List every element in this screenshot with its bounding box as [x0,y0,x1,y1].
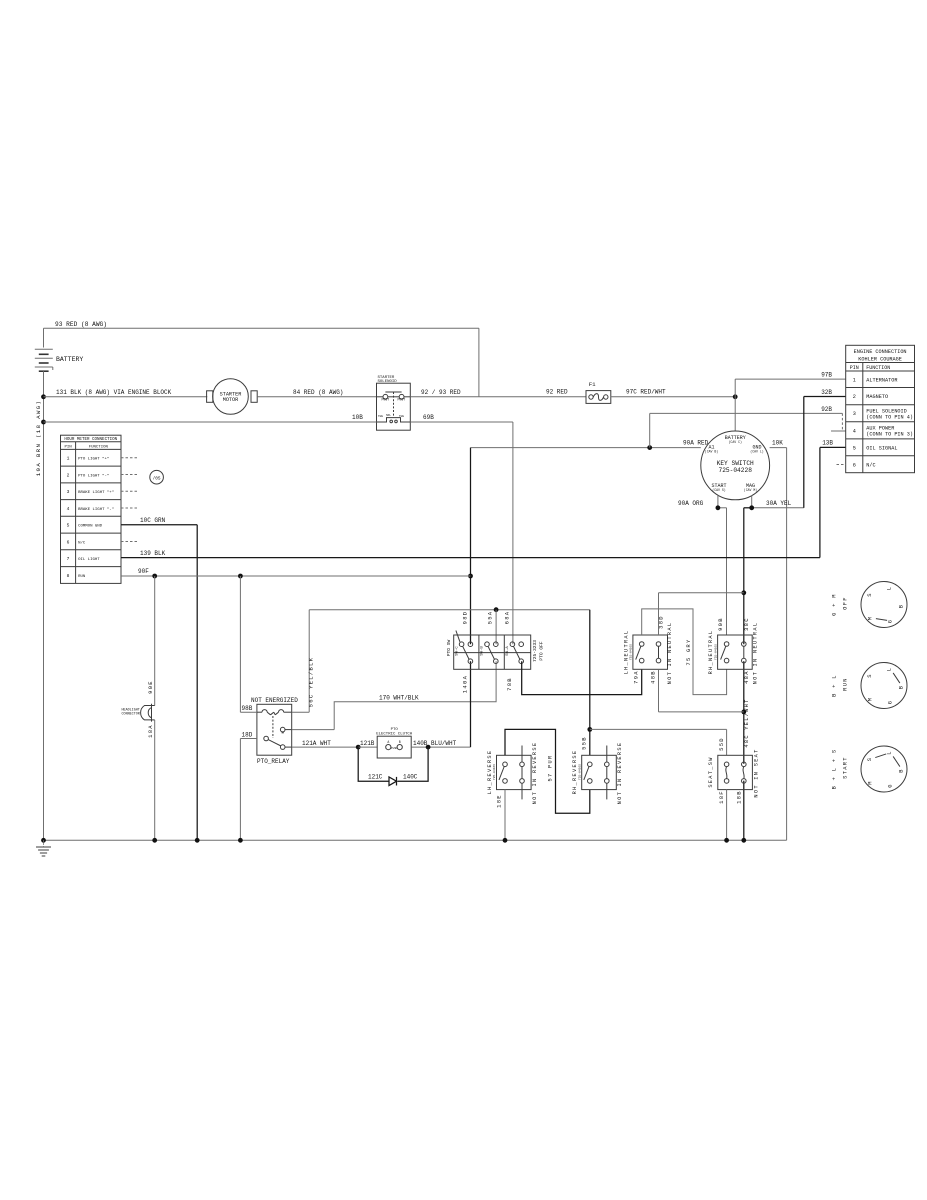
svg-text:140A: 140A [462,675,469,693]
svg-text:NOT IN NEUTRAL: NOT IN NEUTRAL [667,622,673,685]
svg-text:NOT IN SEAT: NOT IN SEAT [753,748,759,797]
svg-text:140C: 140C [403,774,418,781]
svg-text:(CAV S): (CAV S) [712,488,725,492]
svg-text:S: S [867,592,873,597]
svg-text:OIL LIGHT: OIL LIGHT [78,558,100,562]
svg-text:6: 6 [67,539,70,545]
svg-text:69B: 69B [423,414,434,421]
diode across clutch [358,747,428,785]
svg-text:38D: 38D [658,615,665,629]
svg-text:M: M [868,780,874,785]
wire 75 GRY [642,609,727,695]
hour meter connection table [61,435,122,583]
svg-text:LH_NEUTRAL: LH_NEUTRAL [623,630,629,675]
svg-text:B: B [899,768,905,773]
label 38C [743,617,750,631]
svg-text:4: 4 [853,428,856,434]
label 98D [462,611,469,625]
svg-text:30A YEL: 30A YEL [766,500,792,507]
svg-text:LH_REVERSE: LH_REVERSE [487,750,493,795]
hour meter n/c stub 2 [121,490,139,492]
svg-text:POST: POST [398,398,406,402]
svg-text:18D: 18D [242,731,253,738]
svg-text:48B: 48B [649,670,656,684]
wire 90 feed vertical [468,448,473,645]
svg-text:725-04165: 725-04165 [578,764,581,780]
label 10A BRN (18 AWG) [35,400,42,476]
relay PTO_RELAY [251,697,298,765]
svg-text:THE: THE [399,415,404,418]
svg-text:57 PUR: 57 PUR [547,755,553,782]
svg-text:1: 1 [67,456,70,462]
svg-text:97B: 97B [821,372,832,379]
svg-text:90A RED: 90A RED [683,440,709,447]
svg-text:2: 2 [853,394,856,400]
svg-text:ALTERNATOR: ALTERNATOR [866,377,897,383]
svg-text:NOT ENERGIZED: NOT ENERGIZED [251,697,298,704]
svg-text:PIN: PIN [64,446,72,450]
node solenoid ground tap [41,420,46,425]
svg-text:BRAKE LIGHT "-": BRAKE LIGHT "-" [78,507,114,512]
svg-text:THE: THE [378,415,383,418]
svg-text:(CONN TO PIN 3): (CONN TO PIN 3) [866,432,913,438]
wire 170 WHT/BLK [292,661,496,729]
svg-text:10B: 10B [352,414,363,421]
svg-text:SOLENOID: SOLENOID [378,380,398,384]
svg-text:OIL SIGNAL: OIL SIGNAL [866,445,897,451]
svg-text:1: 1 [853,377,856,383]
svg-text:G: G [888,700,894,705]
svg-text:B: B [899,604,905,609]
hour meter n/c stub 4 [121,541,139,543]
svg-text:/05: /05 [153,476,161,481]
fuse F1 [586,381,611,403]
wire 121A WHT [292,740,359,747]
wire 56C YEL/BLK [292,610,315,713]
svg-text:N/C: N/C [78,540,86,545]
svg-text:725-04165: 725-04165 [493,764,496,780]
headlight connector [122,576,155,840]
svg-text:121B: 121B [360,740,375,747]
svg-text:RUN: RUN [843,677,849,691]
wire 50A ORG start [678,495,727,635]
svg-text:ELECTRIC CLUTCH: ELECTRIC CLUTCH [376,733,413,737]
svg-text:NOT IN NEUTRAL: NOT IN NEUTRAL [752,622,758,685]
svg-text:18E: 18E [496,794,503,808]
label 90B [717,617,724,631]
label 18B [735,790,742,804]
svg-text:(CAV M): (CAV M) [744,488,757,492]
svg-text:RUN: RUN [78,575,86,579]
svg-text:10A BRN (18 AWG): 10A BRN (18 AWG) [35,400,42,476]
svg-text:CONNECTOR: CONNECTOR [122,712,140,716]
svg-text:G + M: G + M [832,593,838,616]
svg-text:90E: 90E [147,680,154,694]
svg-text:M: M [868,697,874,702]
svg-text:79A: 79A [633,670,640,684]
wire 55 bus [309,607,590,612]
svg-text:84 RED (8 AWG): 84 RED (8 AWG) [293,389,343,396]
wire 32B to magneto pin 2 [804,389,846,508]
svg-text:140B BLU/WHT: 140B BLU/WHT [413,740,457,747]
svg-text:SEAT_SW: SEAT_SW [708,756,714,787]
svg-text:18A: 18A [147,724,154,738]
wire 93 RED (8 AWG) battery positive [44,321,479,397]
switch LH_NEUTRAL [623,622,673,685]
ground bus wire [41,838,787,843]
svg-text:97C RED/WHT: 97C RED/WHT [626,389,666,396]
svg-text:MOTOR: MOTOR [223,397,239,403]
svg-text:8: 8 [67,573,70,579]
svg-text:COMMON GND: COMMON GND [78,525,103,529]
svg-text:170 WHT/BLK: 170 WHT/BLK [379,695,419,702]
svg-text:48C YEL/WHT: 48C YEL/WHT [744,698,750,747]
svg-text:L: L [887,750,893,755]
starter solenoid [377,376,411,430]
svg-text:S: S [867,757,873,762]
wire 55D to seat switch [590,729,727,755]
svg-text:55B: 55B [580,736,587,750]
key position OFF [832,582,908,628]
starter motor [207,379,258,415]
svg-text:121C: 121C [368,774,383,781]
svg-text:HOUR METER CONNECTION: HOUR METER CONNECTION [64,438,117,442]
wire 98B relay coil feed [240,576,257,712]
key position RUN [832,663,908,709]
hour meter n/c stub 1 [121,474,139,476]
node mag junction [749,505,754,510]
label 48A [743,670,750,684]
PTO electric clutch [376,728,413,758]
wire 48B [649,669,744,712]
svg-text:725-04228: 725-04228 [718,467,752,474]
svg-text:PIN: PIN [850,365,859,371]
svg-text:NOT IN REVERSE: NOT IN REVERSE [617,742,623,805]
svg-text:121A WHT: 121A WHT [302,740,331,747]
svg-text:PZB: PZB [391,747,397,750]
wire 30A YEL mag [744,496,804,508]
node 48A-48B junction [741,710,746,715]
svg-text:B: B [399,740,401,744]
svg-text:SW-C: SW-C [455,646,459,656]
svg-text:725-04165: 725-04165 [714,644,717,660]
svg-text:92B: 92B [821,406,832,413]
svg-text:98B: 98B [242,705,253,712]
svg-text:BRAKE LIGHT "+": BRAKE LIGHT "+" [78,490,114,495]
wire 92B to fuel solenoid pin 3 [650,406,846,448]
svg-text:S: S [867,673,873,678]
svg-text:90B: 90B [717,617,724,631]
svg-text:SW-A: SW-A [506,646,510,656]
node 140B junction [426,745,431,750]
svg-text:BATTERY: BATTERY [56,356,83,363]
svg-text:(CAV C): (CAV C) [729,440,742,444]
svg-text:10K: 10K [772,440,783,447]
svg-text:(CONN TO PIN 4): (CONN TO PIN 4) [866,414,913,420]
svg-text:(CAV L): (CAV L) [750,450,763,454]
svg-text:M: M [868,616,874,621]
svg-text:OFF: OFF [843,596,849,610]
svg-text:PTO LIGHT "+": PTO LIGHT "+" [78,457,109,462]
wire 90A RED [471,440,709,448]
wire 140B BLU/WHT [411,740,470,747]
PTO switch 725-3233 [446,631,544,670]
wire 10B [44,414,377,422]
wire 13B oil signal [820,440,846,558]
wire 18D relay ground [240,731,257,840]
wire 121B [358,740,377,747]
svg-text:90A ORG: 90A ORG [678,500,704,507]
svg-text:FUNCTION: FUNCTION [866,365,890,371]
label 78B [506,677,513,691]
svg-text:START: START [843,756,849,779]
key switch 725-04228 [701,431,770,500]
svg-text:RH_REVERSE: RH_REVERSE [572,750,578,795]
svg-text:93 RED (8 AWG): 93 RED (8 AWG) [55,321,107,328]
svg-text:KEY SWITCH: KEY SWITCH [717,460,754,467]
svg-text:L: L [887,667,893,672]
wire 38D [658,593,744,635]
wire 92 / 93 RED [410,389,479,397]
hour meter n/c stub 3 [121,507,139,509]
wire 10K ground from key switch [770,440,787,841]
wire 84 RED (8 AWG) [257,389,376,397]
svg-text:SOL: SOL [386,414,391,417]
svg-text:PTO SW: PTO SW [446,639,452,656]
wire 10C GRN [121,517,197,841]
svg-text:FUNCTION: FUNCTION [89,446,109,450]
switch RH_NEUTRAL [708,622,758,685]
svg-text:5: 5 [67,523,70,529]
svg-text:N/C: N/C [866,462,875,468]
svg-text:7: 7 [67,556,70,562]
svg-text:55D: 55D [718,737,725,751]
switch LH_REVERSE [487,742,538,805]
svg-text:98D: 98D [462,611,469,625]
key position START [832,746,908,792]
switch SEAT_SW [708,748,760,797]
svg-text:92 RED: 92 RED [546,389,568,396]
pin 6 n/c stub [837,464,846,466]
svg-text:B: B [899,685,905,690]
wire 131 BLK via engine block [44,389,208,397]
wire 69B to PTO switch [410,414,513,644]
wire 57 PUR [505,729,590,813]
label 48C YEL/WHT [744,698,750,747]
wire 90F run feed [121,568,471,578]
svg-text:725-3233: 725-3233 [532,640,538,662]
svg-text:A: A [387,740,389,744]
engine connection table (Kohler Courage) [846,345,915,472]
svg-text:92 / 93 RED: 92 / 93 RED [421,389,461,396]
svg-text:ENGINE CONNECTION: ENGINE CONNECTION [854,349,907,355]
svg-text:(CAV B): (CAV B) [705,450,718,454]
wire 139 BLK oil light [121,550,820,558]
svg-text:3: 3 [853,411,856,417]
svg-text:90F: 90F [138,568,149,575]
svg-text:PTO LIGHT "-": PTO LIGHT "-" [78,473,109,478]
svg-text:78B: 78B [506,677,513,691]
svg-text:139 BLK: 139 BLK [140,550,166,557]
wire 78B [522,661,642,694]
svg-text:18F: 18F [718,790,725,804]
svg-text:G: G [888,619,894,624]
svg-text:KOHLER COURAGE: KOHLER COURAGE [858,357,902,363]
wire 118A [462,661,471,747]
svg-text:68A: 68A [504,611,511,625]
svg-text:POST: POST [382,398,390,402]
wire 55A drop [487,610,497,645]
svg-text:PTO_RELAY: PTO_RELAY [257,758,290,765]
svg-text:F1: F1 [589,381,596,388]
svg-text:725-04165: 725-04165 [630,644,633,660]
svg-text:10C GRN: 10C GRN [140,517,166,524]
node 97C junction [733,394,738,399]
svg-text:13B: 13B [822,440,833,447]
svg-text:PTO OFF: PTO OFF [539,641,545,661]
svg-text:55A: 55A [487,611,494,625]
svg-text:75 GRY: 75 GRY [686,639,692,666]
node battery negative junction [41,394,46,399]
svg-text:56C YEL/BLK: 56C YEL/BLK [308,657,315,708]
svg-text:38C: 38C [743,617,750,631]
wire 97B to alternator pin 1 [735,372,846,431]
wire 55B [580,610,592,756]
svg-text:NOT IN REVERSE: NOT IN REVERSE [532,742,538,805]
svg-text:3: 3 [67,489,70,495]
wire 38C kill vertical [743,508,745,841]
svg-text:RH_NEUTRAL: RH_NEUTRAL [708,630,714,675]
svg-text:B + L + S: B + L + S [832,749,838,790]
wire 79A [633,670,640,684]
svg-text:L: L [887,586,893,591]
battery [35,328,84,840]
hour meter n/c stub 0 [121,457,139,459]
node 92B branch junction [647,445,652,450]
svg-text:6: 6 [853,462,856,468]
svg-text:MAGNETO: MAGNETO [866,394,888,400]
node start junction [716,505,721,510]
ground [36,840,51,856]
svg-text:G: G [888,783,894,788]
svg-text:32B: 32B [821,389,832,396]
node 121B junction [356,745,361,750]
svg-text:SW-B: SW-B [481,646,485,656]
svg-text:48A: 48A [743,670,750,684]
label 68A [504,611,511,625]
node 38C-38D junction [741,590,746,595]
wire 97C RED/WHT [611,389,735,397]
switch RH_REVERSE [572,742,623,805]
svg-text:18B: 18B [735,790,742,804]
wire 18F [718,790,727,841]
wire 18E [496,790,505,841]
svg-text:2: 2 [67,472,70,478]
svg-text:4: 4 [67,506,70,512]
wire 92 RED [479,389,586,397]
svg-text:PTO: PTO [391,728,399,732]
svg-text:B + L: B + L [832,674,838,697]
svg-text:5: 5 [853,445,856,451]
svg-text:131 BLK (8 AWG) VIA ENGINE BLO: 131 BLK (8 AWG) VIA ENGINE BLOCK [56,389,172,396]
revision mark /05 [150,470,164,484]
